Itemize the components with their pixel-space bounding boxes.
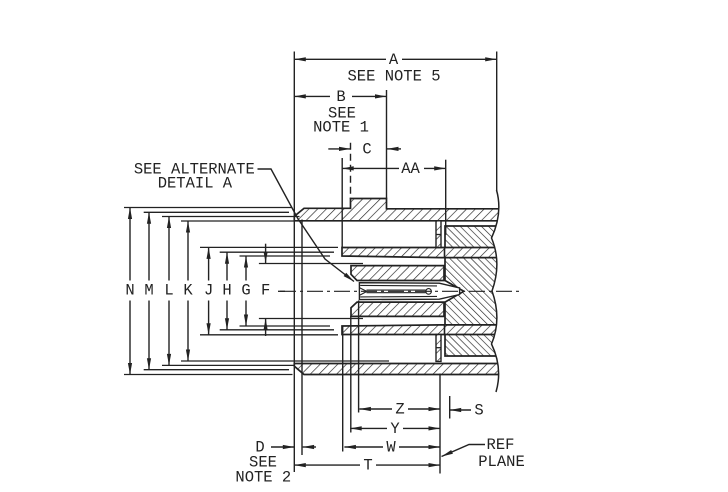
svg-text:K: K	[183, 281, 193, 299]
svg-text:S: S	[474, 401, 483, 419]
svg-text:W: W	[386, 438, 396, 456]
svg-text:M: M	[144, 281, 153, 299]
svg-text:Z: Z	[395, 400, 404, 418]
svg-text:C: C	[362, 141, 371, 159]
svg-text:T: T	[363, 457, 372, 475]
svg-text:A: A	[389, 51, 399, 69]
svg-text:F: F	[261, 281, 270, 299]
svg-text:NOTE 1: NOTE 1	[313, 118, 369, 136]
svg-text:J: J	[204, 281, 213, 299]
svg-text:DETAIL A: DETAIL A	[158, 175, 233, 193]
svg-text:G: G	[241, 281, 250, 299]
svg-text:PLANE: PLANE	[478, 453, 525, 471]
svg-text:B: B	[336, 88, 345, 106]
svg-text:NOTE 2: NOTE 2	[235, 469, 291, 487]
svg-text:L: L	[164, 281, 173, 299]
svg-text:REF: REF	[487, 436, 515, 454]
svg-text:SEE NOTE 5: SEE NOTE 5	[347, 68, 440, 86]
svg-text:H: H	[222, 281, 231, 299]
svg-text:N: N	[125, 281, 134, 299]
svg-text:AA: AA	[401, 160, 420, 178]
svg-text:Y: Y	[390, 420, 400, 438]
